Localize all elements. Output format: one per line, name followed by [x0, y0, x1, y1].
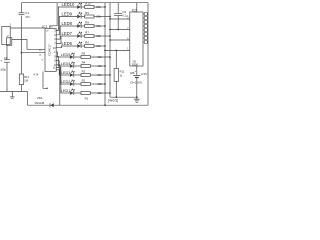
svg-text:LED1: LED1	[61, 89, 71, 93]
resistor R8	[85, 21, 102, 28]
wire IC1 pin to LED row 3	[56, 61, 60, 75]
LED LED10 label	[62, 2, 75, 7]
node row LED1 junction	[109, 92, 111, 94]
wire LED1 to resistor R1	[74, 92, 81, 94]
wire pin2 of touch unit to IC1	[12, 40, 45, 50]
wire top bus to IC2 top	[136, 3, 138, 12]
node row LED4 junction	[104, 65, 106, 67]
wire row LED9	[61, 16, 77, 18]
op IC1 counter CD4017	[39, 25, 56, 72]
capacitor C3	[114, 10, 128, 18]
svg-text:IC2: IC2	[132, 8, 137, 12]
svg-text:1N4148: 1N4148	[34, 101, 44, 105]
wire top supply bus	[22, 2, 149, 4]
wire C2 to ground rail	[6, 63, 8, 92]
wire LED5 to resistor R5	[74, 56, 81, 58]
LED LED3	[70, 71, 75, 77]
LED LED5	[70, 53, 75, 59]
svg-text:9300: 9300	[132, 62, 139, 66]
wire touch unit to capacitor C2	[6, 45, 8, 59]
wire left ground rail	[0, 90, 27, 92]
LED LED4	[70, 62, 75, 68]
wire R2 to bus	[90, 83, 105, 85]
resistor R12	[19, 74, 29, 85]
wire IC1 pin to LED row 8	[56, 26, 61, 39]
node pin3 bus B	[109, 39, 111, 41]
diode VD1 label	[34, 96, 44, 105]
wire IC1 pin to LED row 5	[56, 52, 60, 57]
svg-text:2: 2	[7, 34, 9, 38]
node bus A bottom	[104, 104, 106, 106]
svg-text:1M: 1M	[24, 79, 28, 83]
LED LED6 label	[62, 41, 73, 46]
wire IC2 pin 1 to bus B	[110, 18, 130, 20]
wire R7 to bus	[94, 35, 110, 37]
wire row LED4	[61, 65, 70, 67]
wire right bus vertical	[147, 3, 149, 106]
node R11 top	[115, 50, 117, 52]
wire IC2 pin 2 to bus B	[110, 29, 130, 31]
LED LED1	[70, 89, 75, 95]
wire LED10 to resistor R10	[82, 6, 85, 8]
wire IC1 ground pin to bottom bus	[56, 70, 60, 105]
svg-text:+: +	[0, 59, 2, 63]
LED LED6	[77, 42, 82, 48]
LED LED2	[70, 80, 75, 86]
LED LED3 label	[61, 71, 71, 75]
LED LED2 label	[61, 80, 71, 84]
resistor R7	[85, 31, 102, 38]
svg-text:R8: R8	[85, 21, 89, 25]
resistor R2	[81, 79, 103, 86]
wire bottom ground bus (right of diode VD1)	[54, 104, 148, 106]
svg-text:1k: 1k	[120, 73, 123, 77]
wire IC2 pin 3 to bus B	[110, 39, 130, 41]
svg-text:13: 13	[39, 54, 42, 56]
node battery ground junction	[136, 96, 138, 98]
wire row LED7	[61, 35, 77, 37]
wire R9 to bus	[94, 16, 110, 18]
svg-text:C3: C3	[122, 10, 126, 14]
wire LED2 to resistor R2	[74, 83, 81, 85]
wire row LED5	[61, 56, 70, 58]
wire IC1 pin to LED row 7	[56, 36, 61, 43]
svg-text:R6: R6	[85, 41, 89, 45]
node R11 bottom	[115, 96, 117, 98]
wire IC2 output pins with pin numbers	[143, 13, 148, 44]
wire top bus to capacitor C1	[21, 3, 23, 13]
resistor R10	[85, 2, 102, 9]
LED LED8	[77, 22, 82, 28]
svg-text:VD1: VD1	[37, 96, 43, 100]
node pin2 bus B	[109, 29, 111, 31]
wire LED4 to resistor R4	[74, 65, 81, 67]
svg-text:CP: CP	[46, 31, 50, 33]
LED LED8 label	[62, 21, 73, 26]
wire pin1 of touch unit to IC1	[10, 27, 45, 29]
svg-text:+: +	[134, 69, 136, 73]
svg-text:CD4017: CD4017	[47, 44, 51, 56]
battery GB 4.5V	[130, 69, 148, 85]
node row LED10 junction	[104, 6, 106, 8]
svg-text:LED4: LED4	[61, 62, 71, 66]
LED LED7	[77, 32, 82, 38]
wire top bus to capacitor C3	[117, 3, 119, 13]
wire row LED2	[61, 83, 70, 85]
wire rail corner to bottom bus	[26, 91, 28, 105]
wire IC1 pin to LED row 10	[56, 7, 61, 31]
svg-text:R7: R7	[85, 31, 89, 35]
diode VD1	[50, 103, 54, 107]
wire IC1 pin to LED row 1	[56, 68, 61, 94]
wire R5 to bus	[90, 56, 110, 58]
resistor R5	[81, 52, 103, 59]
svg-text:R3: R3	[82, 70, 86, 74]
node row LED7 junction	[109, 35, 111, 37]
wire IC2 pin 4 to bus A	[105, 49, 130, 51]
resistor R9	[85, 11, 102, 18]
wire IC2 pin wire to resistor R11	[115, 50, 117, 68]
svg-text:R11: R11	[120, 70, 125, 74]
node row LED5 junction	[109, 56, 111, 58]
node C label	[33, 72, 39, 76]
node B junction to IC1	[21, 52, 23, 54]
node row LED3 junction	[109, 74, 111, 76]
LED LED1 label	[61, 89, 71, 93]
node C3 junction	[117, 29, 119, 31]
svg-text:8: 8	[42, 60, 44, 62]
svg-text:(4±0.5): (4±0.5)	[108, 98, 118, 102]
wire R10 to bus	[94, 6, 105, 8]
node row LED8 junction	[104, 25, 106, 27]
svg-text:R1: R1	[85, 96, 89, 100]
node row LED2 junction	[104, 83, 106, 85]
resistor R4	[81, 61, 103, 68]
wire IC1 pin to LED row 4	[56, 56, 60, 66]
wire LED9 to resistor R9	[82, 16, 85, 18]
wire IC1 pin to LED row 9	[56, 17, 61, 35]
wire row LED10	[61, 6, 77, 8]
wire R6 to bus	[94, 45, 105, 47]
svg-text:100µ: 100µ	[0, 68, 6, 72]
wire R11 to battery node wire	[115, 81, 117, 97]
svg-text:C2: C2	[4, 56, 8, 60]
svg-text:LED7: LED7	[62, 31, 73, 36]
wire C1 to resistor R12	[21, 16, 23, 74]
LED LED9	[77, 12, 82, 18]
svg-text:LED9: LED9	[62, 12, 73, 17]
svg-text:473: 473	[25, 15, 30, 19]
resistor R3	[81, 70, 103, 77]
wire bus B to battery node	[110, 96, 137, 98]
wire row LED1	[61, 92, 70, 94]
wire row LED6	[61, 45, 77, 47]
svg-text:1: 1	[9, 23, 11, 27]
svg-text:R4: R4	[82, 61, 86, 65]
ground	[10, 91, 14, 98]
wire LED6 to resistor R6	[82, 45, 85, 47]
svg-text:IC1: IC1	[42, 25, 47, 29]
svg-text:LED3: LED3	[61, 71, 71, 75]
svg-text:R5: R5	[82, 52, 86, 56]
svg-text:R9: R9	[85, 11, 89, 15]
wire R3 to bus	[90, 74, 110, 76]
wire R8 to bus	[94, 25, 105, 27]
wire row LED3	[61, 74, 70, 76]
svg-text:C1: C1	[25, 11, 29, 15]
wire battery to ground	[136, 78, 138, 99]
svg-text:R2: R2	[82, 79, 86, 83]
svg-text:(3×1.5V): (3×1.5V)	[130, 81, 142, 85]
wire C3 to IC2 pin node	[117, 16, 119, 30]
wire node B to IC1 pin	[22, 52, 46, 54]
svg-text:4.5V: 4.5V	[141, 72, 148, 76]
wire bus B vertical	[109, 3, 111, 98]
LED LED7 label	[62, 31, 73, 36]
svg-text:15: 15	[39, 50, 42, 52]
svg-text:LED2: LED2	[61, 80, 71, 84]
svg-text:10: 10	[53, 47, 56, 50]
wire top bus to IC1 power pin	[50, 3, 57, 29]
svg-text:LED6: LED6	[62, 41, 73, 46]
svg-text:LED8: LED8	[62, 21, 73, 26]
resistor R1	[81, 91, 103, 100]
node row LED6 junction	[104, 45, 106, 47]
wire LED7 to resistor R7	[82, 35, 85, 37]
wire LED3 to resistor R3	[74, 74, 81, 76]
wire IC2 bottom to battery GB	[136, 66, 138, 75]
resistor R11	[114, 69, 125, 82]
node row LED9 junction	[109, 16, 111, 18]
wire R12 to ground rail	[21, 85, 23, 92]
wire LED8 to resistor R8	[82, 25, 85, 27]
ground	[134, 99, 140, 102]
svg-text:R12: R12	[24, 75, 29, 79]
svg-text:LED5: LED5	[61, 53, 71, 57]
svg-text:LED10: LED10	[62, 2, 75, 7]
LED LED9 label	[62, 12, 73, 17]
wire IC1 pin to node C	[43, 72, 48, 90]
capacitor C1	[19, 11, 31, 19]
svg-text:R10: R10	[85, 2, 91, 6]
wire bus A vertical	[104, 3, 106, 106]
node pin4 bus A	[104, 50, 106, 52]
wire IC1 pin to LED row 6	[56, 46, 61, 48]
wire R1 to bus	[90, 92, 110, 94]
wire R4 to bus	[90, 65, 105, 67]
capacitor C2	[0, 56, 10, 72]
wire bottom ground bus (left of diode VD1)	[27, 104, 49, 106]
svg-text:4.7k: 4.7k	[33, 72, 39, 76]
LED LED5 label	[61, 53, 71, 57]
svg-text:11: 11	[53, 67, 56, 70]
LED LED4 label	[61, 62, 71, 66]
wire row LED8	[61, 25, 77, 27]
LED LED10	[77, 3, 82, 9]
resistor R6	[85, 41, 102, 48]
wire IC1 pin to LED row 2	[56, 65, 60, 84]
note supply tolerance	[108, 98, 118, 102]
touch plate unit M	[2, 23, 12, 46]
node pin1 bus B	[109, 18, 111, 20]
svg-text:GB: GB	[130, 71, 134, 75]
op IC2 music chip	[127, 8, 143, 66]
